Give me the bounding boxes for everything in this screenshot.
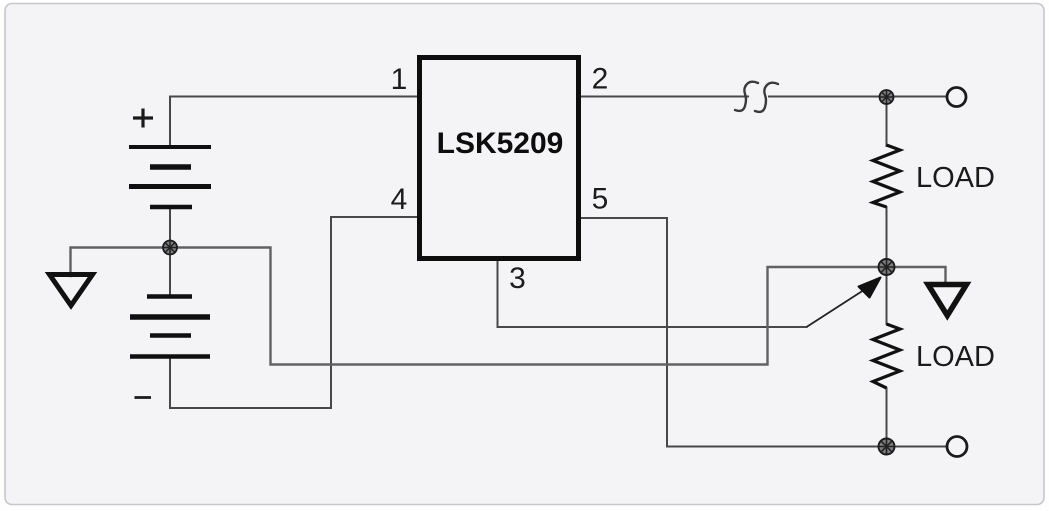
- svg-text:2: 2: [592, 63, 609, 96]
- svg-text:1: 1: [391, 63, 408, 96]
- svg-text:4: 4: [391, 183, 408, 216]
- svg-text:3: 3: [509, 262, 526, 295]
- svg-text:5: 5: [592, 183, 609, 216]
- svg-text:LOAD: LOAD: [916, 162, 995, 194]
- svg-text:LSK5209: LSK5209: [437, 127, 564, 160]
- svg-text:LOAD: LOAD: [916, 341, 995, 373]
